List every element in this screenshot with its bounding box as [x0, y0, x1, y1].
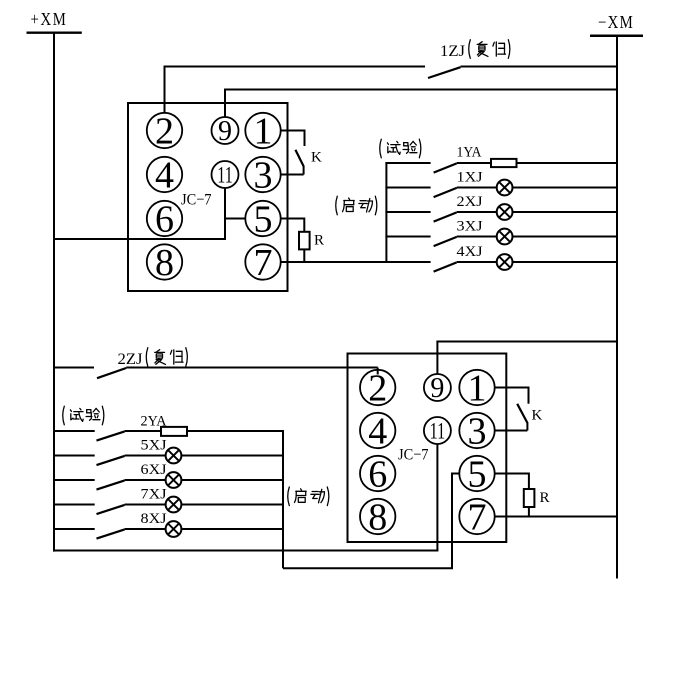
svg-text:4: 4 — [368, 410, 387, 452]
svg-text:8: 8 — [368, 496, 387, 538]
pin 5 (U1) — [245, 198, 280, 240]
label (启动) lower — [288, 487, 290, 506]
bus -XM vertical wire — [616, 35, 618, 579]
svg-text:JC−7: JC−7 — [181, 192, 212, 209]
wire pin5 to lamp-group bus (lower) — [283, 567, 453, 569]
wire 6XJ to lamp — [125, 479, 166, 481]
wire 6XJ stub — [53, 479, 95, 481]
wire 4XJ lamp to -XM — [512, 261, 617, 263]
wire 5XJ to lamp — [125, 455, 166, 457]
wire 7XJ to lamp — [125, 504, 166, 506]
wire 5XJ stub — [53, 455, 95, 457]
svg-text:K: K — [311, 150, 322, 166]
switch blade 8XJ — [97, 529, 125, 538]
svg-text:9: 9 — [218, 116, 232, 147]
wire 2YA to bus — [187, 430, 283, 432]
wire 1YA to resistor — [457, 162, 491, 164]
resistor 2YA — [161, 427, 187, 436]
wire lamp-group bus (lower) — [282, 430, 284, 568]
lamp 5XJ — [166, 448, 182, 464]
svg-text:9: 9 — [430, 373, 444, 404]
svg-text:1XJ: 1XJ — [457, 169, 483, 185]
svg-text:1ZJ: 1ZJ — [440, 43, 465, 60]
wire 7XJ lamp to bus — [181, 504, 283, 506]
relay U2 case (JC-7 lower) — [348, 354, 507, 543]
wire R bottom stub (U1) — [303, 249, 305, 262]
switch blade 2XJ — [434, 212, 457, 221]
wire pin7 row to -XM (U2) — [494, 516, 617, 518]
svg-text:1: 1 — [468, 367, 487, 409]
wire pin3 to K (U1) — [280, 174, 303, 176]
svg-text:4XJ: 4XJ — [457, 244, 483, 260]
switch blade K upper — [295, 150, 303, 167]
svg-text:6XJ: 6XJ — [141, 462, 167, 478]
svg-text:JC−7: JC−7 — [398, 447, 429, 464]
pin 8 (U2) — [360, 496, 395, 538]
lamp 8XJ — [166, 521, 182, 537]
wire 7XJ stub — [53, 504, 95, 506]
pin 11 (U1) — [212, 161, 239, 188]
wire 5XJ lamp to bus — [181, 455, 283, 457]
svg-text:5: 5 — [468, 453, 487, 495]
pin 3 (U1) — [245, 154, 280, 196]
pin 11 (U2) — [424, 417, 451, 444]
wire 3XJ to lamp — [457, 236, 497, 238]
wire K lower stub (U2) — [526, 422, 528, 430]
label (启动) upper — [336, 196, 338, 215]
svg-text:R: R — [540, 490, 550, 506]
switch blade 6XJ — [97, 480, 125, 489]
wire 2ZJ to pin2 (U2) — [126, 367, 378, 369]
wire K upper stub (U2) — [528, 387, 530, 404]
wire pin9 row to -XM — [224, 89, 617, 91]
bus -XM bar — [590, 34, 643, 37]
wire 8XJ to lamp — [125, 528, 166, 530]
pin 4 (U2) — [360, 410, 395, 452]
wire 4XJ to lamp — [457, 261, 497, 263]
svg-text:1: 1 — [254, 110, 273, 152]
wire 1ZJ row right to -XM — [461, 66, 618, 68]
wire 1ZJ row left — [164, 66, 426, 68]
lamp 6XJ — [166, 472, 182, 488]
wire 1XJ to lamp — [457, 187, 497, 189]
svg-text:8: 8 — [155, 242, 174, 284]
pin 1 (U2) — [459, 367, 494, 409]
wire 1YA stub — [385, 162, 430, 164]
lamp 7XJ — [166, 497, 182, 513]
wire 3XJ lamp to -XM — [512, 236, 617, 238]
resistor R (U1) — [299, 232, 310, 250]
switch blade K lower — [517, 404, 527, 423]
svg-text:2XJ: 2XJ — [457, 194, 483, 210]
pin 7 (U1) — [245, 242, 280, 284]
pin 6 (U1) — [147, 198, 182, 240]
switch blade 3XJ — [434, 237, 457, 246]
svg-text:3: 3 — [254, 154, 273, 196]
label 2ZJ suffix (复归) — [146, 348, 148, 367]
wire R bottom stub (U2) — [528, 507, 530, 517]
wire 2XJ lamp to -XM — [512, 211, 617, 213]
wire 3XJ stub — [385, 236, 430, 238]
wire pin11 drop (U1) — [224, 188, 226, 240]
svg-text:5XJ: 5XJ — [141, 437, 167, 453]
wire 2ZJ stub from +XM — [53, 367, 94, 369]
wire 1YA to -XM — [517, 162, 618, 164]
wire 2YA to resistor — [125, 430, 161, 432]
lamp 3XJ — [497, 229, 513, 245]
switch blade 2ZJ — [97, 368, 126, 378]
wire pin3 to K (U2) — [494, 430, 527, 432]
svg-text:2: 2 — [155, 110, 174, 152]
wire pin5 to R (U2) — [494, 473, 529, 475]
pin 6 (U2) — [360, 453, 395, 495]
switch blade 1XJ — [434, 188, 457, 197]
wire 1XJ stub — [385, 187, 430, 189]
wire pin7 row through R and bus to 4XJ switch — [280, 261, 430, 263]
switch blade 1ZJ — [428, 67, 461, 78]
pin 7 (U2) — [459, 496, 494, 538]
resistor 1YA — [491, 159, 517, 167]
pin 9 (U1) — [212, 116, 239, 147]
wire pin1 to K (U2) — [494, 387, 528, 389]
lamp 1XJ — [497, 180, 513, 196]
svg-text:+XM: +XM — [31, 9, 68, 29]
switch blade 2YA — [97, 431, 125, 440]
svg-text:11: 11 — [217, 162, 233, 187]
svg-text:5: 5 — [254, 198, 273, 240]
wire 2YA stub — [53, 430, 95, 432]
wire 2ZJ drop to pin2 (U2) — [377, 368, 379, 375]
wire 8XJ lamp to bus — [181, 528, 283, 530]
svg-text:3XJ: 3XJ — [457, 218, 483, 234]
label (试验) upper — [380, 139, 382, 158]
switch blade 4XJ — [434, 262, 457, 271]
svg-text:1YA: 1YA — [457, 145, 482, 161]
svg-text:6: 6 — [368, 453, 387, 495]
lamp 4XJ — [497, 254, 513, 270]
svg-text:2ZJ: 2ZJ — [118, 351, 143, 368]
wire 8XJ stub — [53, 528, 95, 530]
pin 5 (U2) — [459, 453, 494, 495]
svg-text:11: 11 — [430, 418, 446, 443]
wire pin11 branch to pin5 (U1) — [225, 218, 246, 220]
pin 8 (U1) — [147, 242, 182, 284]
svg-text:7: 7 — [254, 242, 273, 284]
wire pin9 riser (U2) — [436, 342, 438, 375]
switch blade 1YA — [434, 163, 457, 172]
wire pin2 riser (U1) — [164, 67, 166, 113]
wire R top stub (U1) — [303, 218, 305, 232]
pin 1 (U1) — [245, 110, 280, 152]
svg-text:7XJ: 7XJ — [141, 486, 167, 502]
svg-text:K: K — [532, 408, 543, 424]
switch blade 7XJ — [97, 505, 125, 514]
bus +XM vertical wire — [53, 32, 55, 552]
wire K lower stub (U1) — [303, 166, 305, 175]
label 1ZJ suffix (复归) — [469, 40, 471, 59]
wire 1XJ lamp to -XM — [512, 187, 617, 189]
pin 3 (U2) — [459, 410, 494, 452]
resistor R (U2) — [524, 489, 535, 507]
svg-text:8XJ: 8XJ — [141, 511, 167, 527]
wire pin5 drop (U2) — [451, 473, 453, 569]
wire pin9 riser (U1) — [224, 90, 226, 118]
svg-text:4: 4 — [155, 154, 174, 196]
wire 2XJ stub — [385, 211, 430, 213]
wire pin5 left stub (U2) — [452, 473, 460, 475]
lamp 2XJ — [497, 204, 513, 220]
wire pin9 row to -XM (U2) — [436, 341, 617, 343]
wire K upper stub (U1) — [304, 130, 306, 147]
wire 6XJ lamp to bus — [181, 479, 283, 481]
pin 2 (U2) — [360, 367, 395, 409]
svg-text:3: 3 — [468, 410, 487, 452]
wire pin11 to +XM bus — [53, 238, 226, 240]
relay U1 case (JC-7 upper) — [128, 103, 288, 291]
wire pin11 to +XM bus (U2) — [53, 550, 438, 552]
svg-text:2YA: 2YA — [141, 414, 167, 430]
pin 9 (U2) — [424, 373, 451, 404]
label (试验) lower — [63, 406, 65, 425]
pin 4 (U1) — [147, 154, 182, 196]
wire pin11 drop (U2) — [436, 444, 438, 551]
switch blade 5XJ — [97, 456, 125, 465]
svg-text:R: R — [314, 233, 324, 249]
bus +XM bar — [27, 32, 82, 34]
svg-text:6: 6 — [155, 198, 174, 240]
wire pin5 to R (U1) — [280, 218, 304, 220]
pin 2 (U1) — [147, 110, 182, 152]
svg-text:7: 7 — [468, 496, 487, 538]
wire lamp-group bus (upper) — [385, 162, 387, 262]
wire pin1 to K (U1) — [280, 130, 304, 132]
wire 2XJ to lamp — [457, 211, 497, 213]
wire R top stub (U2) — [528, 473, 530, 490]
svg-text:−XM: −XM — [598, 12, 634, 32]
